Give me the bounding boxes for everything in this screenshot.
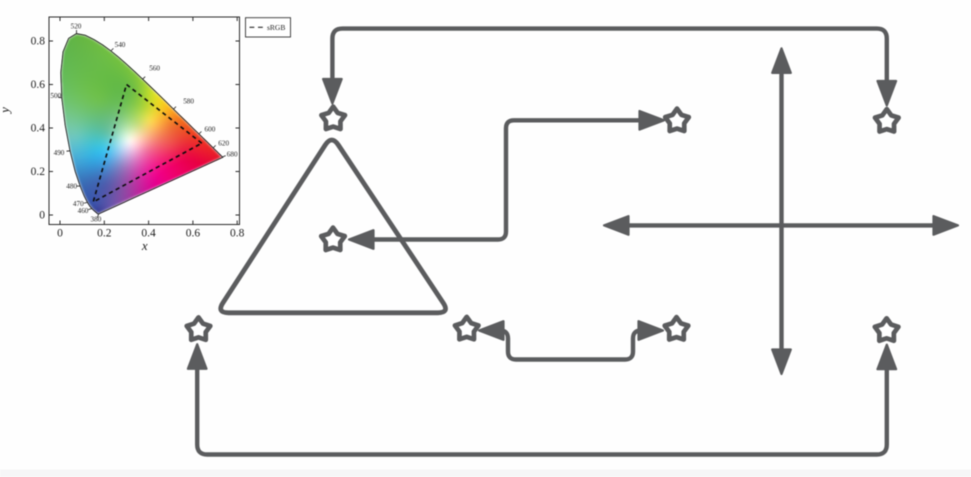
y axis tick labels [31,36,46,222]
star S2 [875,109,899,131]
star S7 [665,317,689,339]
arrowhead up into star S8 [878,345,897,370]
svg-text:480: 480 [66,183,77,191]
svg-text:0: 0 [57,228,63,240]
svg-text:490: 490 [54,149,65,157]
arrowhead right end of horizontal double arrow [934,216,959,235]
svg-text:0: 0 [39,210,45,222]
sRGB gamut dashed triangle [93,85,202,203]
wire top connector [332,29,886,81]
svg-text:560: 560 [149,65,160,73]
CIE chromaticity horseshoe fill [48,16,242,226]
star S8 [875,318,899,340]
wavelength ticks [58,30,226,218]
svg-text:0.6: 0.6 [186,228,201,240]
star S3 [665,109,689,131]
svg-text:0.2: 0.2 [31,166,46,178]
svg-text:580: 580 [183,97,194,105]
triangle shape [221,140,446,313]
star S5 [187,317,211,339]
svg-text:sRGB: sRGB [267,23,285,32]
arrowhead down into star S1 [323,79,342,104]
x axis tick labels [57,228,245,240]
legend box [246,18,291,37]
spectral locus outline [61,34,223,214]
svg-text:380: 380 [91,216,102,224]
wavelength labels [50,23,238,224]
star S1 [321,107,345,129]
svg-text:0.4: 0.4 [31,123,46,135]
arrowhead bottom end of vertical double arrow [772,350,791,375]
axis tick marks [49,17,240,225]
arrowhead down into star S2 [878,81,897,106]
svg-text:600: 600 [205,126,216,134]
svg-text:680: 680 [227,150,238,158]
arrowhead right into star S3 [640,111,665,130]
svg-text:460: 460 [78,207,89,215]
arrowhead right into star S7 [639,321,664,340]
wire U connector [500,331,641,360]
svg-text:x: x [141,238,148,253]
svg-text:0.8: 0.8 [31,36,46,48]
star S6 [455,317,479,339]
wire Z connector [372,120,640,239]
arrowhead left end of horizontal double arrow [604,216,629,235]
svg-text:y: y [0,107,12,115]
bottom edge light strip [0,470,971,477]
wire bottom connector [197,369,887,455]
svg-text:500: 500 [50,92,61,100]
svg-text:0.8: 0.8 [230,228,245,240]
horizontal double arrow [628,223,935,227]
arrowhead left into star S6 [479,321,504,340]
vertical double arrow [779,72,783,350]
svg-text:620: 620 [218,140,229,148]
arrowhead top end of vertical double arrow [772,48,791,73]
arrowhead up into star S5 [188,344,207,369]
star S4 [321,228,345,250]
svg-text:0.2: 0.2 [97,228,112,240]
svg-text:0.6: 0.6 [31,79,46,91]
svg-text:520: 520 [71,23,82,31]
plot axes frame [49,17,240,225]
arrowhead left into star S4 [349,230,374,249]
svg-text:540: 540 [115,41,126,49]
